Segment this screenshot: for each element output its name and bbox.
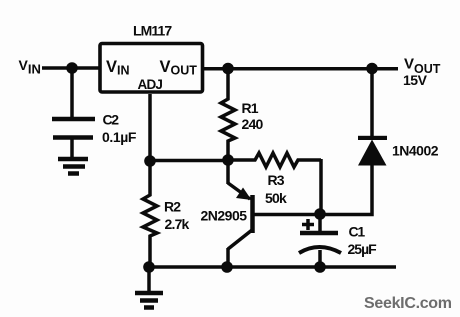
wire top output rail: [204, 67, 398, 71]
regulator U1 LM117 box: [100, 44, 203, 93]
node base C1 junction: [314, 208, 326, 220]
svg-text:LM117: LM117: [133, 23, 172, 39]
svg-text:25µF: 25µF: [348, 241, 378, 257]
svg-text:R3: R3: [268, 172, 285, 188]
capacitor C2: [52, 119, 95, 138]
ground below C2: [58, 139, 88, 174]
wire ADJ pin drop: [148, 94, 152, 163]
svg-text:R2: R2: [164, 198, 181, 214]
ground below bottom rail: [135, 267, 163, 308]
svg-text:ADJ: ADJ: [138, 77, 163, 92]
node rail C1 junction: [314, 261, 326, 273]
capacitor C1: [299, 214, 341, 267]
svg-text:1N4002: 1N4002: [392, 143, 439, 159]
wire bottom rail: [149, 265, 396, 269]
transistor Q1 emitter arrow: [236, 188, 252, 201]
transistor Q1 2N2905: [228, 160, 320, 267]
node R1 bottom junction: [222, 154, 234, 166]
svg-text:2N2905: 2N2905: [201, 208, 248, 224]
svg-text:C2: C2: [103, 112, 120, 128]
svg-text:C1: C1: [349, 224, 366, 240]
wire VIN lead: [42, 66, 99, 70]
svg-text:0.1µF: 0.1µF: [102, 129, 137, 145]
wire R3 corner to base node: [319, 159, 323, 214]
wire ADJ node horizontal: [150, 159, 228, 163]
node R1 top: [222, 63, 234, 75]
node VIN input junction: [66, 62, 78, 74]
resistor R1: [221, 68, 235, 160]
svg-text:R1: R1: [242, 100, 259, 116]
node diode top: [366, 63, 378, 75]
wire diode top branch: [370, 68, 374, 137]
wire base node to diode branch: [320, 164, 372, 215]
diode D1 1N4002: [358, 140, 387, 166]
svg-text:15V: 15V: [403, 72, 428, 88]
resistor R2: [143, 161, 157, 267]
svg-text:SeekIC.com: SeekIC.com: [364, 295, 452, 312]
svg-text:240: 240: [242, 116, 264, 132]
node ADJ junction: [144, 155, 156, 167]
node rail ground junction: [143, 261, 155, 273]
wire C2 branch: [70, 68, 74, 117]
svg-text:50k: 50k: [265, 190, 287, 206]
resistor R3: [228, 153, 321, 167]
svg-text:2.7k: 2.7k: [165, 216, 190, 232]
node rail collector junction: [221, 261, 233, 273]
